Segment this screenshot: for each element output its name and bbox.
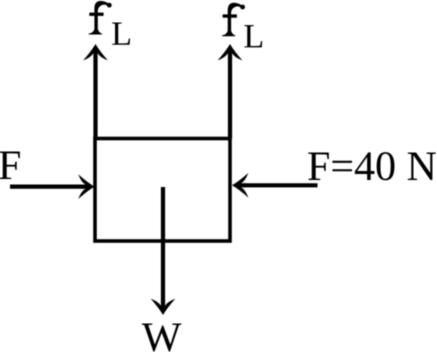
arrowhead: W pointing down <box>151 299 176 315</box>
arrowhead: F pointing right <box>78 174 94 199</box>
label fL (right): subscript L <box>244 25 262 47</box>
label F (left) <box>0 152 20 180</box>
wire: left lift-force shaft <box>93 57 97 139</box>
label fL (right): f <box>222 3 245 37</box>
block (box) <box>95 139 230 242</box>
wire: right applied force F=40N shaft <box>243 183 318 187</box>
arrowhead: F=40N pointing left <box>232 173 248 198</box>
label W (bottom) <box>142 324 182 352</box>
wire: weight W shaft <box>161 187 165 302</box>
label F=40 N (right) <box>308 152 436 180</box>
wire: left applied force F shaft <box>10 185 84 189</box>
arrowhead: left lift-force up <box>83 44 108 60</box>
wire: right lift-force shaft <box>228 57 232 139</box>
arrowhead: right lift-force up <box>218 44 243 60</box>
label fL (left): f (hand-drawn CM-style glyph) <box>89 1 112 35</box>
label fL (left): subscript L <box>112 23 130 45</box>
